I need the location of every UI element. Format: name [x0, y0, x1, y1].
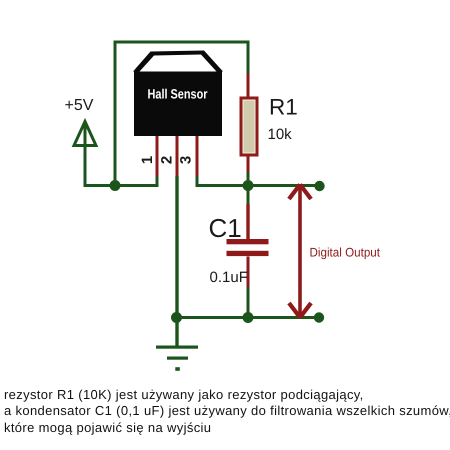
svg-text:Hall Sensor: Hall Sensor [148, 87, 209, 102]
svg-text:0.1uF: 0.1uF [210, 269, 248, 286]
svg-text:C1: C1 [209, 213, 242, 243]
svg-text:3: 3 [178, 156, 195, 164]
svg-text:2: 2 [159, 156, 176, 164]
svg-text:10k: 10k [268, 126, 293, 143]
svg-text:1: 1 [139, 156, 156, 164]
svg-text:R1: R1 [269, 95, 298, 120]
svg-text:+5V: +5V [65, 97, 94, 114]
svg-text:Digital Output: Digital Output [310, 246, 381, 260]
